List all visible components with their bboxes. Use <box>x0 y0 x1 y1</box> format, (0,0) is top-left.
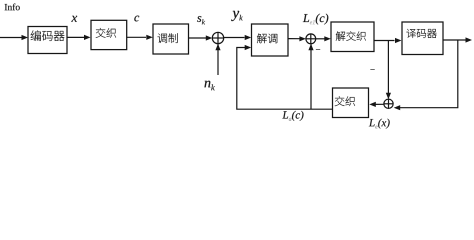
label y_k <box>231 11 243 21</box>
wire deinterleaver to decoder <box>374 40 395 42</box>
wire input to encoder <box>0 37 22 39</box>
text 解交织 <box>336 31 366 40</box>
label L_a(c) <box>282 111 303 121</box>
wire adder A1 to demodulator <box>224 37 245 39</box>
block modulator 调制 <box>153 24 189 54</box>
wire adder A3 to bottom interleaver <box>375 103 384 105</box>
text 调制 <box>158 33 178 43</box>
label x <box>71 16 77 22</box>
label s_k <box>197 16 205 24</box>
adder A1 circle-plus <box>212 32 223 43</box>
wire feedback riser to demod lower input <box>237 48 333 110</box>
label Info <box>5 4 20 11</box>
block decoder 译码器 <box>402 22 443 55</box>
block interleaver 交织 <box>91 20 127 49</box>
block encoder 编码器 <box>28 27 67 54</box>
wire demodulator to adder A2 <box>288 38 300 40</box>
text 交织 bottom <box>335 96 355 106</box>
wire decoder output feedback down to adder A3 <box>400 40 458 108</box>
block bottom interleaver 交织 <box>333 88 369 118</box>
wire modulator to adder A1 <box>189 37 207 39</box>
label n_k <box>204 81 214 91</box>
block deinterleaver 解交织 <box>331 22 374 52</box>
label L_e1(c) <box>303 14 328 25</box>
label c <box>134 16 139 22</box>
wire noise n_k into adder A1 <box>217 44 219 75</box>
text 交织 <box>96 28 116 38</box>
wire minus feedback into adder A2 <box>310 44 312 109</box>
wire encoder to interleaver <box>67 36 84 38</box>
label minus at adder A3 <box>370 49 374 89</box>
label L_e(x) <box>369 119 390 129</box>
wire minus feedback from decoder input into adder A3 <box>387 41 389 94</box>
block demodulator 解调 <box>252 24 289 56</box>
wire interleaver to modulator <box>127 36 146 38</box>
text 解调 <box>257 33 277 43</box>
adder A3 circle-plus <box>384 99 393 108</box>
text 译码器 <box>406 29 436 38</box>
adder A2 circle-plus <box>306 34 316 44</box>
text 编码器 <box>31 30 65 40</box>
label minus at adder A2 <box>316 29 320 69</box>
wire adder A2 to deinterleaver <box>316 38 325 40</box>
wire decoder output <box>443 39 466 41</box>
